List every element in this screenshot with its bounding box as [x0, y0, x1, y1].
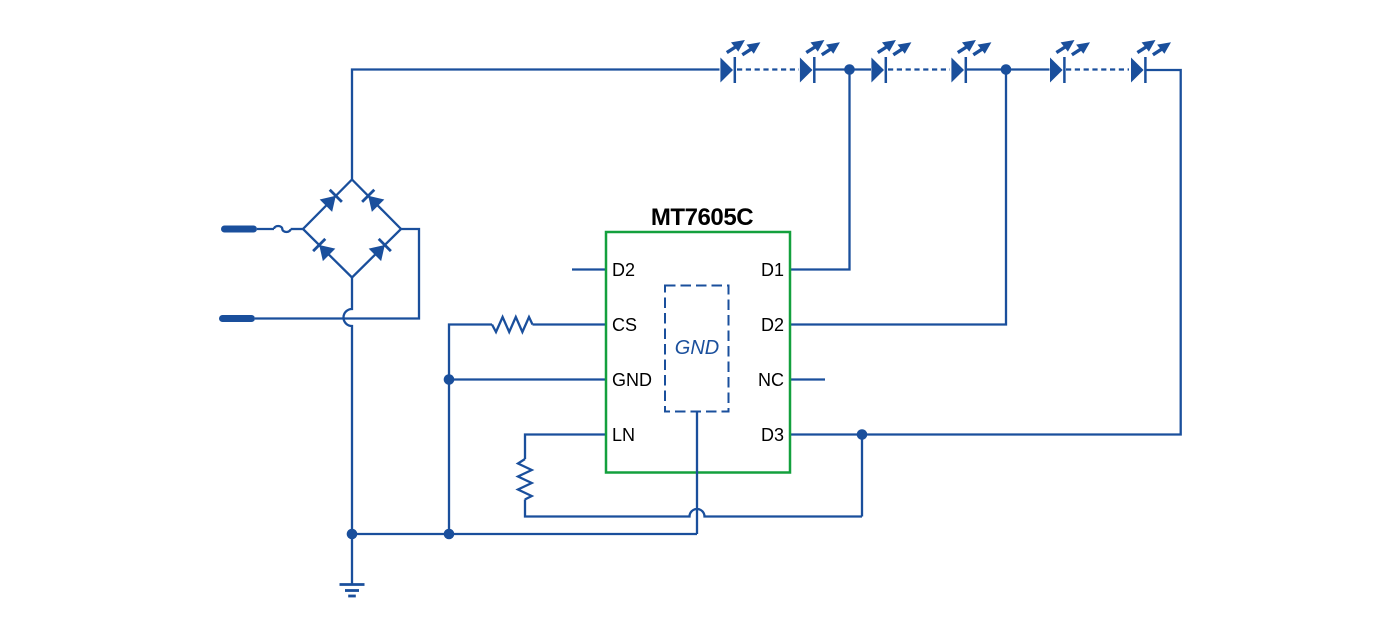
junction dot A — [844, 64, 855, 75]
wire CS resistor to IC — [533, 323, 607, 325]
wire bridge bottom vertex down with hop over AC line — [344, 278, 353, 535]
wire bottom ground rail — [352, 533, 697, 535]
bridge diode upper-right — [362, 190, 384, 212]
svg-text:GND: GND — [675, 337, 719, 359]
LED string dashed link 1 — [737, 68, 799, 70]
wire internal GND lead down through IC bottom — [696, 412, 698, 535]
wire GND pin to node — [449, 378, 606, 380]
svg-text:GND: GND — [612, 370, 652, 390]
bridge diode lower-right — [369, 239, 391, 261]
wire LED2 cathode through junction A to LED3 anode — [815, 68, 871, 70]
LED 2 — [800, 40, 840, 83]
wire D2 pin to junction B — [790, 70, 1006, 325]
wire CS resistor left to GND node — [449, 325, 492, 380]
resistor on LN (vertical zigzag) — [518, 459, 532, 500]
wire top rail from bridge top vertex to LED1 anode — [352, 70, 720, 180]
LED 1 — [720, 40, 760, 83]
LED string dashed link 2 — [888, 68, 950, 70]
fuse squiggle on AC line 1 — [274, 226, 291, 232]
wire GND node down to bottom rail — [448, 380, 450, 535]
junction dot CS/GND — [444, 374, 455, 385]
svg-text:D2: D2 — [612, 260, 635, 280]
AC input terminal 2 — [223, 315, 252, 322]
wire NC stub — [790, 378, 825, 380]
wire AC line 2 from terminal to bridge right vertex — [255, 229, 419, 319]
svg-text:NC: NC — [758, 370, 784, 390]
svg-text:MT7605C: MT7605C — [651, 204, 753, 231]
LED string dashed link 3 — [1066, 68, 1129, 70]
LED 5 — [1050, 40, 1090, 83]
bridge diode lower-left — [313, 239, 335, 261]
svg-text:CS: CS — [612, 315, 637, 335]
junction dot B — [1001, 64, 1012, 75]
svg-text:D1: D1 — [761, 260, 784, 280]
IC internal GND dashed box — [665, 286, 729, 412]
wire D1 pin to junction A — [790, 70, 850, 270]
wire D3 junction down to bottom return — [861, 435, 863, 517]
ground symbol — [340, 585, 365, 597]
wire bottom return with hop over GND line — [525, 500, 862, 517]
junction dot bottom rail left — [347, 529, 358, 540]
wire squiggle to bridge left vertex — [291, 228, 303, 230]
junction dot bottom rail mid — [444, 529, 455, 540]
LED 4 — [951, 40, 991, 83]
LED 3 — [871, 40, 911, 83]
AC input terminal 1 — [225, 226, 254, 233]
wire LED4 cathode through junction B to LED5 anode — [967, 68, 1050, 70]
bridge diamond outline — [303, 180, 401, 278]
wire left D2 stub — [572, 268, 606, 270]
wire LED6 cathode right and down to D3 row — [790, 70, 1181, 435]
svg-text:LN: LN — [612, 425, 635, 445]
svg-text:D3: D3 — [761, 425, 784, 445]
wire resistor top to LN pin — [525, 435, 606, 460]
junction dot D3 — [857, 429, 868, 440]
IC U1 MT7605C body — [606, 232, 790, 473]
bridge diode upper-left — [320, 190, 342, 212]
svg-text:D2: D2 — [761, 315, 784, 335]
wire ground stem — [351, 534, 353, 585]
resistor on CS (horizontal zigzag) — [492, 317, 532, 332]
wire AC line 1 from terminal to squiggle — [257, 228, 274, 230]
LED 6 — [1131, 40, 1171, 83]
